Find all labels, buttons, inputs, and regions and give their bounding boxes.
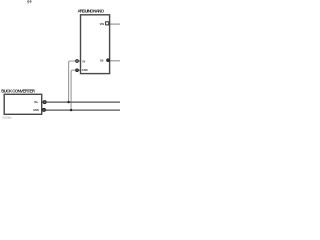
svg-text:IN+: IN+ [34,100,39,104]
svg-text:BUCK CONVERTER: BUCK CONVERTER [1,89,36,94]
svg-text:ARDUINO NANO: ARDUINO NANO [78,8,105,13]
svg-text:5V: 5V [82,60,85,64]
svg-text:DC-DC Buck: DC-DC Buck [2,116,12,119]
svg-text:GND: GND [82,68,88,72]
svg-text:D9: D9 [100,59,104,63]
svg-text:VIN: VIN [100,22,104,26]
svg-text:GND: GND [33,108,39,112]
